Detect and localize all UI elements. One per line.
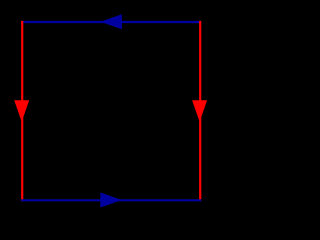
arrowhead on bottom edge, pointing right <box>100 193 122 208</box>
edge a2: right side (red), oriented downward <box>199 21 201 202</box>
edge b1: top side (blue), oriented leftward <box>21 21 201 23</box>
arrowhead on right edge, pointing down <box>192 100 207 122</box>
arrowhead on top edge, pointing left <box>100 14 122 29</box>
arrowhead on left edge, pointing down <box>14 100 29 122</box>
edge b2: bottom side (blue), oriented rightward <box>21 199 201 201</box>
edge a1: left side (red), oriented downward <box>21 21 23 202</box>
